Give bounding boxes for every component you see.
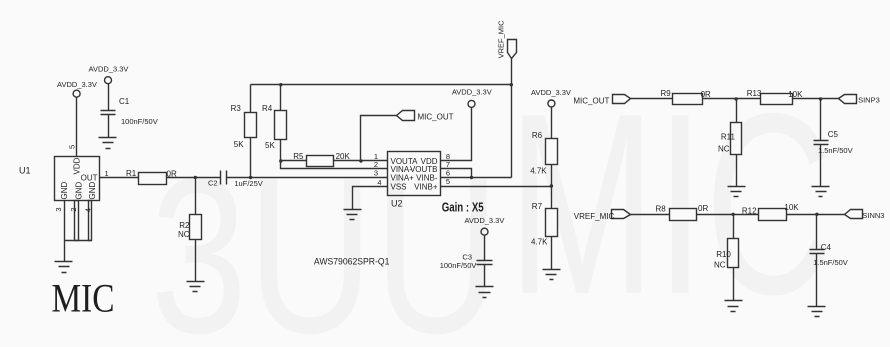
wire U2 pin8 to AVDD <box>441 108 472 161</box>
svg-text:1.5nF/50V: 1.5nF/50V <box>813 258 848 267</box>
wire R9 to R13 <box>703 97 761 100</box>
wire R6 top <box>551 107 553 139</box>
ground under R2 <box>187 282 205 292</box>
svg-text:U2: U2 <box>391 199 403 209</box>
svg-text:1uF/25V: 1uF/25V <box>234 179 262 188</box>
svg-text:R9: R9 <box>661 89 672 98</box>
svg-text:R11: R11 <box>721 132 736 141</box>
svg-text:GND: GND <box>60 182 69 200</box>
wire C4 to ground <box>816 254 818 307</box>
wire U2 pin4 to ground <box>353 187 388 210</box>
wire R12 to SINN3 <box>787 213 845 216</box>
ground under R10 <box>725 301 743 312</box>
watermark (decorative) <box>150 59 833 347</box>
svg-text:4.7K: 4.7K <box>530 166 547 175</box>
resistor R7 body <box>546 209 558 237</box>
wire VREF_MIC vertical <box>511 59 513 178</box>
svg-text:0R: 0R <box>167 169 177 178</box>
svg-text:VSS: VSS <box>391 182 407 191</box>
svg-text:GND: GND <box>74 182 83 200</box>
power AVDD_3.3V at U1 <box>73 90 80 97</box>
svg-text:5K: 5K <box>234 140 244 149</box>
wire C5 drop <box>820 99 822 141</box>
svg-text:SINN3: SINN3 <box>862 211 884 220</box>
svg-text:NC: NC <box>714 260 726 269</box>
svg-text:C1: C1 <box>119 97 130 106</box>
power AVDD_3.3V at C3 <box>481 228 488 235</box>
svg-text:AVDD_3.3V: AVDD_3.3V <box>89 65 129 74</box>
IC U2 body <box>388 152 441 196</box>
resistor R6 body <box>546 139 558 165</box>
svg-text:R13: R13 <box>747 89 762 98</box>
wire C1 to ground <box>108 115 110 138</box>
wire R10 to ground <box>733 268 735 301</box>
svg-text:100nF/50V: 100nF/50V <box>121 117 158 126</box>
svg-text:AWS79062SPR-Q1: AWS79062SPR-Q1 <box>314 257 390 268</box>
svg-text:4.7K: 4.7K <box>531 238 548 247</box>
power AVDD_3.3V at C1 <box>105 77 112 84</box>
wire U1 VDD pin5 <box>76 98 78 157</box>
svg-text:R2: R2 <box>179 221 190 230</box>
wire R4 column <box>279 85 387 169</box>
wire C2 to U2 pin3 <box>227 176 388 179</box>
svg-text:AVDD_3.3V: AVDD_3.3V <box>531 88 571 97</box>
wire R8 to R12 <box>697 213 759 216</box>
wire VREF_MIC to R8 <box>631 214 670 216</box>
svg-text:10K: 10K <box>788 90 803 99</box>
power AVDD_3.3V at U2 pin8 <box>468 100 475 107</box>
ground under U2 pin4 <box>344 210 362 220</box>
wire MIC_OUT tap <box>361 116 397 161</box>
svg-text:5: 5 <box>68 145 77 149</box>
svg-text:C2: C2 <box>208 179 218 188</box>
capacitor C2 plates <box>221 171 227 185</box>
capacitor C1 plates <box>101 111 116 115</box>
svg-text:Gain : X5: Gain : X5 <box>442 199 484 214</box>
wire R11 drop <box>736 99 738 123</box>
svg-text:R7: R7 <box>532 202 543 211</box>
svg-text:5K: 5K <box>265 141 275 150</box>
svg-text:C5: C5 <box>828 130 839 139</box>
wire R3 column <box>250 85 252 178</box>
svg-text:VREF_MIC: VREF_MIC <box>497 20 506 59</box>
resistor R5 body <box>307 156 334 167</box>
wire C5 to ground <box>820 145 822 187</box>
svg-text:3: 3 <box>374 169 378 178</box>
svg-text:R3: R3 <box>231 104 242 113</box>
wire R1 to C2 <box>167 176 221 179</box>
svg-text:5: 5 <box>446 177 450 186</box>
svg-text:VDD: VDD <box>73 157 82 174</box>
svg-text:AVDD_3.3V: AVDD_3.3V <box>57 80 97 89</box>
wire U2 pin5 to R6 R7 <box>441 184 554 187</box>
ground under C5 <box>812 187 830 197</box>
svg-text:4: 4 <box>377 178 381 187</box>
svg-text:SINP3: SINP3 <box>858 96 880 105</box>
resistor R8 body <box>670 209 697 221</box>
wire R2 to ground <box>195 240 197 282</box>
ground under R11 <box>728 187 746 197</box>
resistor R13 body <box>761 94 793 105</box>
wire C4 drop <box>816 215 818 250</box>
wire R4 to R5 <box>281 160 307 162</box>
svg-text:AVDD_3.3V: AVDD_3.3V <box>452 88 492 97</box>
ground under C1 <box>99 138 117 149</box>
ground under R7 <box>543 270 561 280</box>
wire R7 top <box>551 187 553 209</box>
capacitor C4 plates <box>810 250 825 254</box>
svg-text:100nF/50V: 100nF/50V <box>440 261 477 270</box>
wire R10 drop <box>733 215 735 239</box>
svg-text:3: 3 <box>54 207 63 211</box>
resistor R3 body <box>245 113 257 138</box>
wire R13 to SINP3 <box>793 97 839 100</box>
svg-text:MIC_OUT: MIC_OUT <box>573 96 609 105</box>
power AVDD_3.3V at R6 <box>548 100 555 107</box>
resistor R4 body <box>275 111 287 140</box>
svg-text:C4: C4 <box>821 243 832 252</box>
ground under U1 <box>55 262 73 273</box>
IC U1 body <box>55 157 100 201</box>
node SINP3 flag <box>839 95 857 104</box>
svg-text:R10: R10 <box>716 250 731 259</box>
wire R5 to U2 pin1 <box>334 159 388 162</box>
svg-text:1.5nF/50V: 1.5nF/50V <box>818 146 853 155</box>
capacitor C5 plates <box>814 141 829 145</box>
svg-text:VINB-: VINB- <box>416 173 438 182</box>
ground under C4 <box>808 307 826 317</box>
resistor R2 body <box>190 215 202 240</box>
svg-text:AVDD_3.3V: AVDD_3.3V <box>464 216 504 225</box>
wire R11 to ground <box>736 155 738 187</box>
svg-text:VREF_MIC: VREF_MIC <box>574 212 615 221</box>
wire U2 pin6 to VREF <box>441 177 512 179</box>
wire U2 pin7 join pin6 <box>441 169 474 180</box>
resistor R9 body <box>673 94 703 105</box>
svg-text:2: 2 <box>69 207 78 211</box>
svg-text:1: 1 <box>105 169 109 178</box>
wire U1 pin1 to R1 <box>100 177 139 179</box>
svg-text:R5: R5 <box>293 152 304 161</box>
svg-text:MIC: MIC <box>52 276 115 321</box>
svg-text:R6: R6 <box>532 131 543 140</box>
svg-text:R1: R1 <box>126 169 137 178</box>
resistor R12 body <box>759 209 787 221</box>
node MIC_OUT port flag right <box>613 95 631 104</box>
wire MIC_OUT to R9 <box>631 98 673 100</box>
svg-text:0R: 0R <box>698 204 708 213</box>
svg-text:NC: NC <box>718 144 730 153</box>
wire U1 GND pins <box>65 201 92 262</box>
wire R2 drop <box>195 178 197 215</box>
svg-text:VINA+: VINA+ <box>391 173 415 182</box>
node MIC_OUT flag <box>397 111 415 121</box>
wire C3 to ground <box>484 265 486 287</box>
node VREF_MIC port flag right <box>612 210 631 219</box>
node VREF_MIC flag top <box>508 40 517 59</box>
svg-text:10K: 10K <box>784 203 799 212</box>
svg-text:VINB+: VINB+ <box>414 182 438 191</box>
svg-text:GND: GND <box>88 182 97 200</box>
svg-text:7: 7 <box>446 160 450 169</box>
svg-text:U1: U1 <box>19 166 31 176</box>
wire R6 bottom <box>551 165 553 187</box>
ground under C3 <box>476 287 494 298</box>
wire C1 top <box>108 84 110 111</box>
svg-text:OUT: OUT <box>81 174 98 183</box>
svg-text:20K: 20K <box>336 152 351 161</box>
resistor R1 body <box>139 173 167 185</box>
svg-text:NC: NC <box>178 230 190 239</box>
svg-text:0R: 0R <box>701 90 711 99</box>
node SINN3 flag <box>845 210 863 219</box>
wire R7 to ground <box>551 237 553 270</box>
svg-text:R8: R8 <box>656 205 667 214</box>
wire C3 top <box>484 236 486 261</box>
svg-text:2: 2 <box>374 160 378 169</box>
svg-text:4: 4 <box>83 208 92 212</box>
svg-text:R4: R4 <box>262 104 273 113</box>
wire top bus R3 R4 VREF <box>251 83 514 86</box>
svg-text:MIC_OUT: MIC_OUT <box>418 113 454 122</box>
resistor R11 body <box>731 123 742 155</box>
capacitor C3 plates <box>477 261 493 265</box>
resistor R10 body <box>728 239 739 268</box>
svg-text:R12: R12 <box>742 206 757 215</box>
